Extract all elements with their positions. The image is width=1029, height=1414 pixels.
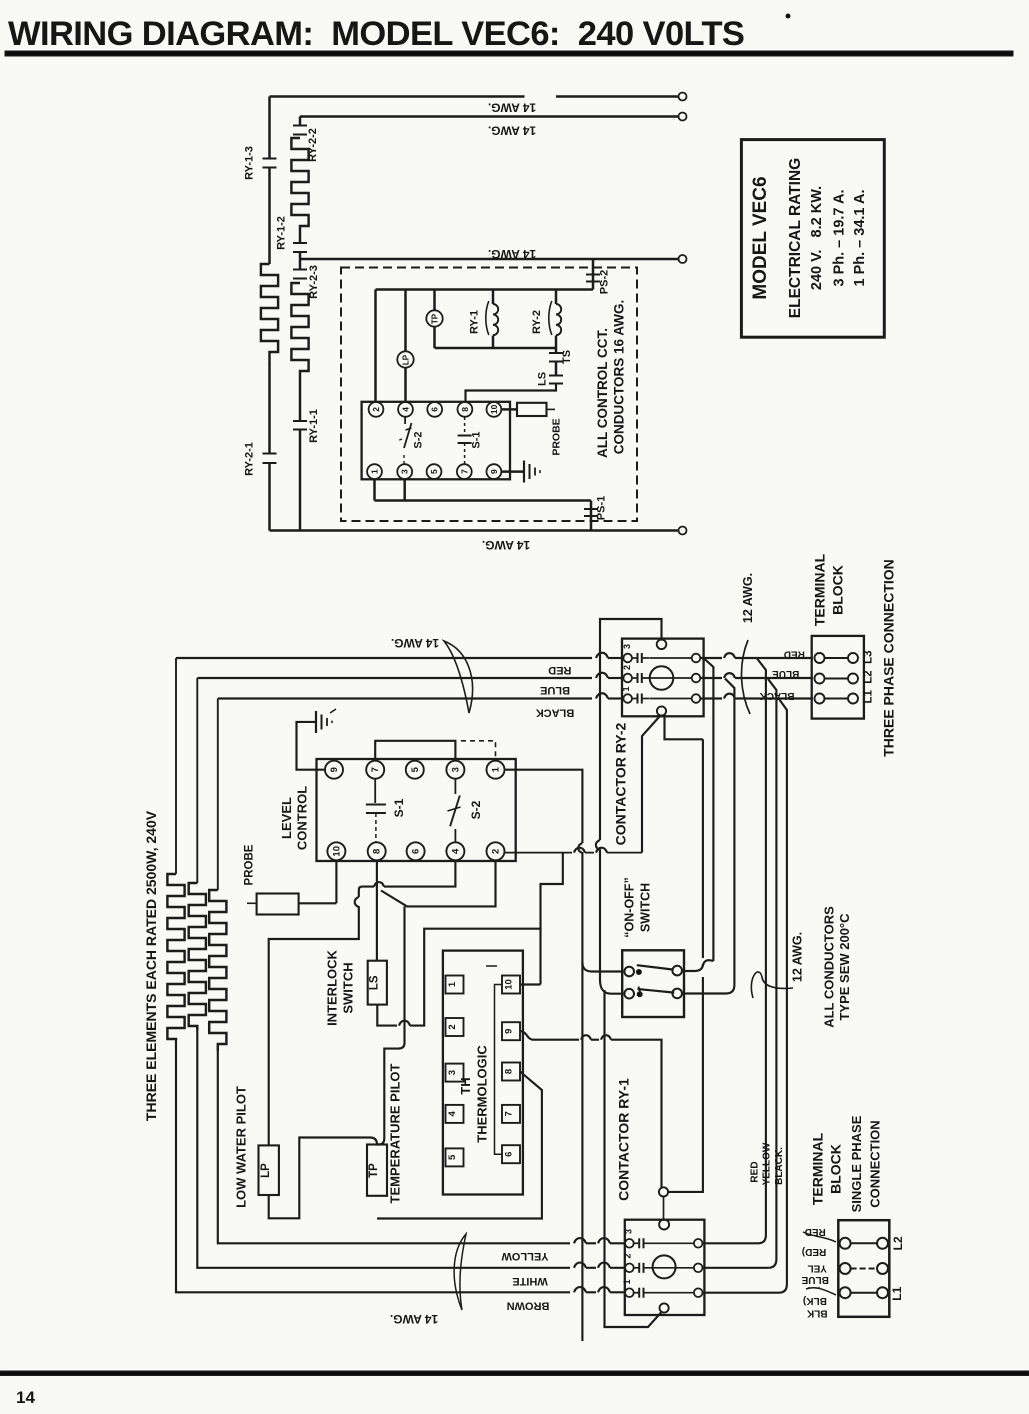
- svg-text:INTERLOCK: INTERLOCK: [324, 949, 339, 1025]
- terminal 10 (level control): [327, 842, 345, 860]
- svg-text:L1: L1: [890, 1286, 904, 1300]
- terminal 9 (level control): [325, 761, 343, 779]
- contact RY-1-2: [293, 242, 307, 244]
- svg-text:14 AWG.: 14 AWG.: [390, 1312, 438, 1326]
- wire chain A bottom: [268, 463, 271, 531]
- svg-text:BLACK.: BLACK.: [774, 1147, 785, 1185]
- single phase terminal block: [838, 1220, 889, 1317]
- svg-text:LEVEL: LEVEL: [279, 797, 294, 839]
- svg-text:TERMINAL: TERMINAL: [809, 1132, 825, 1205]
- svg-text:10: 10: [331, 846, 342, 857]
- RY-2 contact 1: [623, 694, 632, 703]
- terminal circle control feed: [679, 255, 687, 263]
- svg-text:5: 5: [410, 766, 421, 772]
- leader BLK to L1: [806, 1288, 836, 1295]
- terminal 3 (level control): [446, 761, 464, 779]
- svg-text:CONDUCTORS 16 AWG.: CONDUCTORS 16 AWG.: [612, 300, 627, 455]
- terminal 9 (thermologic): [502, 1022, 520, 1040]
- wire BLUE phase: [197, 677, 592, 679]
- bottom rule: [0, 1371, 1029, 1376]
- svg-text:1 Ph. – 34.1 A.: 1 Ph. – 34.1 A.: [852, 190, 868, 287]
- svg-text:RY-1: RY-1: [469, 310, 481, 334]
- svg-text:CONTACTOR RY-1: CONTACTOR RY-1: [616, 1078, 632, 1201]
- wire LS to T8: [466, 384, 557, 402]
- terminal 4 (thermologic): [446, 1105, 464, 1123]
- svg-text:14 AWG.: 14 AWG.: [488, 247, 536, 261]
- title underline: [5, 51, 1013, 56]
- leader for 14 AWG (phase feed): [444, 641, 473, 713]
- thermologic block: [443, 951, 523, 1195]
- svg-text:RED: RED: [548, 664, 571, 676]
- svg-text:BROWN: BROWN: [507, 1300, 550, 1312]
- rating box: [741, 140, 884, 338]
- three phase terminal block: [812, 636, 864, 719]
- svg-text:RY-1-3: RY-1-3: [244, 146, 256, 180]
- wire LS bottom bus: [377, 1005, 397, 1026]
- svg-text:L1 L2 L3: L1 L2 L3: [863, 650, 875, 703]
- contact PS-1: [584, 508, 598, 510]
- wire RY-2 to RY-1 coil link: [668, 977, 703, 1192]
- wire junction to RY-1 coil: [663, 1197, 665, 1220]
- terminal 2 (upper block): [369, 402, 384, 417]
- wire BLACK drop (single phase): [779, 699, 787, 1293]
- RY-2 coil circle: [650, 666, 674, 690]
- probe stub (upper): [547, 408, 556, 410]
- svg-text:6: 6: [430, 407, 440, 412]
- wire bottom rail 14 AWG: [270, 529, 679, 532]
- svg-text:9: 9: [329, 767, 340, 772]
- svg-text:TH: TH: [458, 1077, 473, 1094]
- wire control bus C: [435, 347, 557, 350]
- svg-text:7: 7: [503, 1111, 514, 1116]
- svg-text:YEL: YEL: [807, 1263, 826, 1274]
- wire T2 right: [505, 852, 572, 854]
- wire TS to LS: [555, 362, 558, 376]
- terminal 1 (upper block): [367, 464, 382, 479]
- svg-text:YELLOW: YELLOW: [762, 1142, 773, 1185]
- svg-text:1: 1: [370, 469, 380, 474]
- svg-text:14 AWG.: 14 AWG.: [391, 636, 439, 650]
- svg-text:SWITCH: SWITCH: [340, 962, 355, 1013]
- svg-text:TP: TP: [431, 313, 440, 324]
- wire element 3 feed: [217, 699, 219, 891]
- svg-text:THREE PHASE CONNECTION: THREE PHASE CONNECTION: [881, 559, 897, 757]
- wire YELLOW drop (single phase): [768, 679, 776, 1268]
- wire PS-1 drop: [590, 501, 593, 531]
- terminal L1 (three phase): [815, 694, 825, 704]
- heater element winding (chain B upper): [291, 138, 308, 236]
- svg-text:6: 6: [503, 1152, 514, 1157]
- leader RED to L2: [803, 1232, 836, 1242]
- svg-text:LP: LP: [402, 354, 411, 365]
- terminal 7 (level control): [366, 761, 384, 779]
- svg-text:PROBE: PROBE: [243, 844, 255, 885]
- switch pole 1: [624, 967, 634, 977]
- terminal 7 (upper block): [457, 464, 472, 479]
- svg-text:3: 3: [622, 644, 632, 649]
- RY-2 contact 2: [623, 674, 632, 683]
- wire element 1 feed: [175, 658, 177, 874]
- RY-1 junction circle: [659, 1187, 668, 1196]
- contact PS-2: [586, 274, 600, 276]
- svg-text:“ON-OFF”: “ON-OFF”: [623, 877, 637, 937]
- svg-text:BLUE: BLUE: [540, 684, 570, 696]
- contact TS: [549, 352, 563, 354]
- wire T1 to switch: [505, 770, 583, 843]
- svg-text:PS-1: PS-1: [596, 496, 608, 520]
- svg-text:2: 2: [371, 407, 381, 412]
- svg-text:3: 3: [450, 767, 461, 772]
- svg-text:RY-1-2: RY-1-2: [275, 216, 287, 250]
- wire RY-2 coil to TS: [555, 336, 558, 353]
- svg-text:2: 2: [447, 1024, 458, 1029]
- probe stub (lower): [247, 902, 257, 904]
- svg-text:CONTACTOR RY-2: CONTACTOR RY-2: [613, 722, 629, 845]
- svg-text:2: 2: [622, 665, 632, 670]
- terminal 1 (thermologic): [446, 976, 464, 994]
- wire switch TR riser: [682, 964, 703, 971]
- ground (upper): [523, 461, 525, 483]
- svg-text:4: 4: [401, 407, 411, 412]
- RY-1 contact 2: [625, 1264, 634, 1273]
- svg-text:240 V. 8.2 KW.: 240 V. 8.2 KW.: [809, 186, 825, 290]
- wire T10 to probe: [501, 408, 517, 411]
- wire chain A mid: [268, 168, 271, 265]
- terminal 8 (level control): [368, 842, 386, 860]
- probe: [257, 894, 299, 915]
- svg-text:WHITE: WHITE: [512, 1275, 547, 1287]
- terminal 7 (thermologic): [502, 1105, 520, 1123]
- wire RY-1 coil to bus C: [492, 336, 495, 349]
- wire TH8 to TP bottom: [377, 1072, 542, 1219]
- svg-text:3: 3: [624, 1229, 634, 1234]
- svg-text:14 AWG.: 14 AWG.: [488, 124, 536, 138]
- wire RED drop (single phase): [757, 659, 766, 1244]
- contactor RY-2 box: [622, 639, 704, 717]
- heater element 3: [209, 890, 226, 1051]
- svg-text:LP: LP: [260, 1163, 272, 1178]
- wire TP to bus C: [433, 327, 436, 349]
- terminal L1 (single phase): [840, 1287, 851, 1298]
- heater element 1: [167, 874, 184, 1040]
- wire RY-2 coil bottom drop: [665, 715, 703, 958]
- svg-text:5: 5: [447, 1154, 458, 1160]
- wire chain B lower: [299, 375, 302, 421]
- contact RY-2-2: [293, 125, 307, 127]
- RY-1 bottom terminal: [660, 1303, 669, 1312]
- switch S-2 (upper block): [404, 417, 406, 424]
- contact LS (control): [549, 375, 563, 377]
- RY-2 row wires: [650, 657, 692, 659]
- svg-text:LS: LS: [537, 372, 549, 386]
- relay coil RY-2: [556, 304, 561, 335]
- interlock switch LS: [368, 961, 387, 1005]
- svg-text:THERMOLOGIC: THERMOLOGIC: [475, 1045, 490, 1143]
- wire probe to T10: [299, 860, 337, 903]
- on-off switch box: [622, 950, 684, 1017]
- svg-text:S-2: S-2: [469, 800, 483, 819]
- wire element 3 tail to YELLOW: [218, 1051, 570, 1243]
- wire BLUE output: [700, 677, 722, 679]
- terminal 4 (upper block): [398, 402, 413, 417]
- terminal 6 (upper block): [427, 402, 442, 417]
- terminal L3 (three phase): [815, 653, 825, 663]
- svg-text:3: 3: [400, 469, 410, 474]
- wire chain A lower: [268, 363, 271, 453]
- wire chain B junction: [299, 252, 302, 269]
- thermologic inner bus: [495, 985, 503, 1155]
- svg-text:RED): RED): [802, 1246, 826, 1257]
- wire switch BR riser: [682, 679, 734, 994]
- wire RED phase: [176, 657, 592, 659]
- terminal 5 (upper block): [427, 464, 442, 479]
- terminal 6 (thermologic): [502, 1145, 520, 1163]
- terminal 2 (level control): [487, 842, 505, 860]
- svg-text:S-2: S-2: [413, 431, 425, 448]
- svg-text:14: 14: [16, 1388, 35, 1407]
- low water pilot LP: [259, 1145, 279, 1195]
- terminal 2 (thermologic): [446, 1018, 464, 1036]
- terminal circle L2: [679, 113, 687, 121]
- RY-2 bottom terminal: [657, 706, 666, 715]
- wire chain B bottom: [299, 430, 302, 531]
- svg-text:BLK): BLK): [803, 1295, 827, 1306]
- svg-text:8: 8: [460, 407, 470, 412]
- terminal 5 (level control): [406, 761, 424, 779]
- svg-text:14 AWG.: 14 AWG.: [482, 538, 530, 552]
- svg-text:TP: TP: [368, 1163, 380, 1178]
- RY-1 contact 3: [625, 1239, 634, 1248]
- wire TH10 riser: [521, 929, 541, 985]
- svg-text:LOW WATER PILOT: LOW WATER PILOT: [233, 1086, 248, 1208]
- svg-text:9: 9: [489, 469, 499, 474]
- wire T4 to LP: [384, 860, 455, 886]
- wire RED output: [700, 657, 722, 659]
- terminal 6 (level control): [407, 842, 425, 860]
- wire L2 top rail 14 AWG: [300, 115, 679, 118]
- wire LP riser: [404, 290, 407, 352]
- svg-text:CONNECTION: CONNECTION: [867, 1120, 882, 1207]
- ground (lower): [315, 711, 317, 733]
- terminal 3 (thermologic): [446, 1064, 464, 1082]
- contact RY-2-3: [293, 269, 307, 271]
- svg-text:1: 1: [621, 686, 631, 691]
- wire RY-1 coil riser: [492, 290, 495, 305]
- svg-text:SWITCH: SWITCH: [639, 883, 653, 932]
- terminal 8 (thermologic): [502, 1063, 520, 1081]
- svg-text:8: 8: [372, 849, 383, 854]
- RY-1 coil circle: [653, 1255, 676, 1278]
- wire RY-2 coil riser: [555, 290, 558, 305]
- wire RY-2 coil top tap: [600, 619, 662, 840]
- switch S-1 (upper block): [464, 417, 466, 433]
- svg-text:THREE ELEMENTS EACH RATED 2500: THREE ELEMENTS EACH RATED 2500W, 240V: [143, 810, 159, 1121]
- svg-text:ELECTRICAL RATING: ELECTRICAL RATING: [787, 158, 804, 318]
- leader for 14 AWG (element leads): [454, 1234, 466, 1310]
- svg-text:1: 1: [447, 981, 458, 987]
- RY-2 right terminals: [692, 654, 701, 663]
- svg-text:7: 7: [459, 469, 469, 474]
- svg-text:S-1: S-1: [392, 798, 406, 817]
- wire chain B upper: [299, 117, 302, 126]
- svg-text:TYPE SEW 200°C: TYPE SEW 200°C: [837, 913, 852, 1021]
- svg-text:RED: RED: [749, 1161, 760, 1182]
- svg-text:10: 10: [489, 404, 499, 414]
- svg-text:RY-2-1: RY-2-1: [244, 442, 256, 476]
- stray dot above title: [786, 14, 790, 18]
- svg-text:BLK: BLK: [806, 1308, 827, 1319]
- wire T9 to ground (lower): [297, 722, 326, 770]
- level control block (upper): [362, 402, 510, 480]
- svg-text:YELLOW: YELLOW: [501, 1250, 549, 1262]
- pilot lamp TP: [426, 310, 442, 326]
- terminal 5 (thermologic): [446, 1148, 464, 1166]
- svg-text:TS: TS: [561, 350, 573, 364]
- leader 12 AWG (three phase): [741, 640, 750, 714]
- terminal 10 (upper block): [487, 402, 502, 417]
- svg-text:3 Ph. – 19.7 A.: 3 Ph. – 19.7 A.: [832, 190, 848, 287]
- leader 12 AWG (feeder): [751, 972, 793, 998]
- pilot lamp LP: [397, 351, 413, 367]
- wire TH9 out: [520, 1031, 579, 1040]
- svg-text:12 AWG.: 12 AWG.: [741, 573, 755, 623]
- relay coil RY-1: [493, 304, 498, 335]
- wire element 1 tail to BROWN: [176, 1040, 570, 1292]
- terminal circle L1: [679, 93, 687, 101]
- svg-text:BLOCK: BLOCK: [828, 1144, 844, 1194]
- wire L1 top rail 14 AWG: [270, 95, 525, 98]
- svg-text:6: 6: [411, 849, 422, 854]
- svg-text:TERMINAL: TERMINAL: [812, 553, 828, 626]
- svg-text:CONTROL: CONTROL: [295, 786, 310, 850]
- wire T8 to LS: [376, 860, 378, 960]
- dashed link T3 to T1: [461, 741, 496, 761]
- svg-text:PS-2: PS-2: [599, 270, 611, 294]
- wire T1 drop (upper): [373, 479, 376, 500]
- svg-text:RY-2: RY-2: [531, 310, 543, 334]
- svg-text:BLOCK: BLOCK: [830, 565, 846, 615]
- svg-text:RY-1-1: RY-1-1: [308, 409, 320, 443]
- terminal 4 (level control): [446, 842, 464, 860]
- terminal 10 (thermologic): [502, 976, 520, 994]
- wire LP bottom to TP top: [269, 1138, 377, 1219]
- terminal 8 (upper block): [458, 402, 473, 417]
- wire BLACK phase: [218, 697, 592, 699]
- wire T3 drop (upper): [403, 479, 406, 500]
- svg-text:WIRING DIAGRAM: MODEL VEC6:: WIRING DIAGRAM: MODEL VEC6: 240 V0LTS: [8, 15, 744, 53]
- wire T2 to TP junction: [381, 860, 496, 906]
- wire chain B link: [299, 236, 302, 243]
- wire switch TL tap: [582, 962, 623, 972]
- RY-2 contact 3: [623, 654, 632, 663]
- svg-text:LS: LS: [369, 975, 381, 990]
- svg-text:12 AWG.: 12 AWG.: [791, 932, 805, 982]
- wire TP drop: [377, 906, 405, 1144]
- temperature pilot TP: [367, 1145, 387, 1196]
- dashed control box: [341, 268, 637, 522]
- svg-text:3: 3: [447, 1070, 458, 1075]
- svg-text:9: 9: [503, 1029, 514, 1034]
- wire element 2 tail to WHITE: [197, 1030, 570, 1268]
- contactor RY-1 box: [625, 1220, 705, 1315]
- wire control bus D: [375, 499, 592, 502]
- wire chain A upper: [268, 97, 271, 159]
- switch pole 2: [624, 989, 634, 999]
- svg-text:7: 7: [370, 767, 381, 772]
- svg-text:SINGLE PHASE: SINGLE PHASE: [849, 1115, 864, 1212]
- svg-text:2: 2: [491, 849, 502, 854]
- heater element 2: [189, 883, 206, 1030]
- svg-text:14 AWG.: 14 AWG.: [488, 101, 536, 115]
- wire LP to T4: [404, 368, 407, 403]
- terminal circle bottom rail: [679, 527, 687, 535]
- wire coil tap to switch BL: [596, 840, 623, 994]
- switch S-2 (level control): [454, 779, 456, 794]
- heater element winding (chain B lower): [291, 283, 308, 375]
- RY-2 top terminal: [657, 640, 667, 650]
- RY-1 top terminal: [659, 1220, 669, 1230]
- svg-text:ALL CONTROL CCT.: ALL CONTROL CCT.: [595, 328, 610, 458]
- terminal 9 (upper block): [487, 464, 502, 479]
- svg-text:S-1: S-1: [471, 431, 483, 448]
- svg-text:4: 4: [450, 848, 461, 854]
- wire element 2 feed: [196, 678, 198, 883]
- wire PS-2 drop: [592, 259, 595, 290]
- wire control feed rail 14 AWG: [300, 258, 679, 261]
- contact RY-1-3: [263, 158, 277, 160]
- wire T9 to ground: [501, 470, 523, 473]
- wire TP riser: [433, 290, 436, 311]
- probe (upper): [517, 403, 547, 416]
- wire loop T7 to T3: [375, 741, 455, 761]
- terminal L2 (single phase): [840, 1238, 851, 1249]
- svg-text:L2: L2: [891, 1236, 905, 1250]
- svg-text:1: 1: [622, 1279, 632, 1284]
- switch S-1 (level control): [374, 779, 376, 803]
- svg-text:4: 4: [447, 1111, 458, 1117]
- wire T2 riser: [374, 290, 377, 403]
- terminal L2 (three phase): [815, 674, 825, 684]
- wire control bus A: [376, 288, 594, 291]
- svg-text:ALL CONDUCTORS: ALL CONDUCTORS: [822, 906, 837, 1028]
- svg-text:2: 2: [623, 1253, 633, 1258]
- svg-text:BLUE: BLUE: [772, 668, 800, 679]
- svg-text:MODEL VEC6: MODEL VEC6: [750, 176, 771, 299]
- terminal 3 (upper block): [397, 464, 412, 479]
- svg-text:RED: RED: [784, 649, 805, 660]
- svg-text:10: 10: [503, 979, 514, 990]
- svg-text:5: 5: [429, 469, 439, 474]
- contact RY-2-1: [263, 453, 277, 455]
- svg-text:BLACK: BLACK: [536, 707, 575, 719]
- heater element winding (chain A): [261, 264, 278, 363]
- svg-text:PROBE: PROBE: [551, 418, 563, 455]
- contact RY-1-1: [293, 420, 307, 422]
- svg-text:TEMPERATURE PILOT: TEMPERATURE PILOT: [388, 1064, 403, 1204]
- wire BLACK output: [700, 697, 722, 699]
- terminal mid (single phase): [840, 1263, 851, 1274]
- level control block: [317, 759, 516, 861]
- RY-1 contact 1: [625, 1288, 634, 1297]
- terminal 1 (level control): [487, 761, 505, 779]
- svg-text:1: 1: [491, 766, 502, 772]
- RY-1 right terminals: [694, 1239, 703, 1248]
- svg-text:8: 8: [503, 1069, 514, 1074]
